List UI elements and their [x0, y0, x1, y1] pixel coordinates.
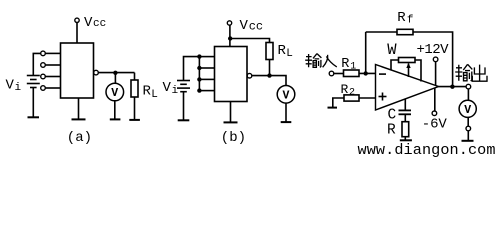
- ground of R2 (c): [328, 107, 338, 109]
- IC output pin terminal circle (a): [94, 70, 99, 75]
- label C (c): [388, 108, 397, 124]
- wire ground to R2 (c): [333, 98, 344, 108]
- wire pin2 (b): [199, 67, 214, 69]
- wire Vcc to IC top (a): [76, 23, 78, 43]
- ground of IC (a): [72, 118, 86, 120]
- junction dot output (c): [450, 85, 454, 89]
- wire battery to ground (a): [32, 88, 34, 118]
- svg-text:+12V: +12V: [417, 42, 450, 58]
- character 出 (out): [472, 65, 487, 82]
- ground of voltmeter (c): [462, 140, 474, 142]
- wire R2 to op-amp (c): [359, 97, 376, 99]
- wire pin1 (b): [199, 56, 214, 58]
- battery Vi (a): [27, 76, 40, 88]
- svg-text:V: V: [111, 87, 118, 100]
- wire output node (a): [98, 72, 134, 74]
- wire input to R1 (c): [334, 73, 344, 75]
- wire RL to output node (b): [269, 60, 271, 76]
- svg-text:V: V: [283, 90, 290, 103]
- wire to RL (a): [134, 73, 136, 80]
- output terminal circle (c): [466, 84, 471, 89]
- label output 输出: [455, 64, 487, 81]
- svg-text:www.diangon.com: www.diangon.com: [358, 141, 496, 159]
- wire voltmeter to ground (b): [285, 103, 287, 122]
- wire -6V to op-amp (c): [434, 88, 436, 111]
- wire pin4 (b): [199, 90, 214, 92]
- wire R1 to op-amp (c): [359, 72, 376, 74]
- voltmeter V (b): [277, 86, 295, 104]
- resistor RL (a): [131, 80, 138, 97]
- wire RL to ground (a): [134, 97, 136, 120]
- wire pin4 to IC (a): [45, 87, 60, 89]
- junction dot output (b): [267, 73, 271, 77]
- resistor R1 (c): [344, 70, 360, 77]
- label R2 (c): [341, 82, 356, 99]
- svg-text:cc: cc: [93, 18, 106, 30]
- label +12V (c): [417, 42, 450, 58]
- -6V terminal circle (c): [432, 111, 437, 116]
- resistor R vertical (c): [402, 122, 409, 137]
- character 输 (output): [455, 65, 462, 81]
- ground of IC (b): [224, 121, 238, 123]
- svg-text:R: R: [341, 57, 349, 72]
- battery Vi (b): [177, 81, 190, 92]
- ground of voltmeter (a): [110, 118, 121, 120]
- wire output to voltmeter (b): [252, 76, 286, 86]
- op-amp U1 triangle (c): [376, 65, 439, 111]
- wire C to R (c): [404, 114, 406, 121]
- Vcc terminal circle (b): [227, 21, 231, 25]
- svg-text:i: i: [15, 82, 22, 94]
- character 输 (input): [305, 54, 312, 67]
- wire Rf right to output node (c): [413, 32, 453, 87]
- svg-text:(a): (a): [67, 130, 92, 146]
- watermark www.diangon.com: [358, 141, 496, 159]
- pin 3 terminal circle (a): [41, 74, 46, 79]
- svg-text:V: V: [240, 18, 249, 34]
- pin 4 terminal circle (a): [41, 86, 46, 91]
- wire voltmeter to ground (a): [114, 101, 116, 119]
- pin 4 junction dot (b): [197, 88, 201, 92]
- label Vcc (b): [240, 18, 264, 34]
- +12V terminal circle (c): [433, 57, 438, 62]
- wire op-amp bottom edge to C (c): [404, 99, 406, 110]
- ground of battery (a): [28, 116, 40, 118]
- ground of battery (b): [178, 119, 190, 121]
- svg-text:(b): (b): [221, 130, 246, 146]
- plus sign inside op-amp (c): [379, 93, 387, 101]
- wire terminal to ground (c): [467, 131, 469, 141]
- svg-text:R: R: [341, 82, 349, 97]
- svg-text:L: L: [151, 89, 158, 101]
- Vcc terminal circle (a): [75, 18, 79, 22]
- wire W left lead (c): [391, 60, 399, 71]
- label (b): [221, 130, 246, 146]
- wire feedback left rail (c): [365, 32, 367, 73]
- wire Rf left (c): [366, 31, 397, 33]
- label -6V (c): [422, 117, 448, 133]
- voltmeter V (a): [106, 83, 124, 101]
- IC block U1 (b): [215, 47, 248, 102]
- wire Vcc junction to RL (b): [230, 39, 269, 43]
- pin 2 terminal circle (a): [41, 63, 46, 68]
- label Vi (a): [6, 78, 22, 94]
- wire battery to bus (b): [184, 57, 200, 81]
- junction dot (a): [113, 71, 117, 75]
- svg-text:i: i: [172, 85, 179, 97]
- svg-text:2: 2: [349, 88, 355, 99]
- potentiometer wiper arrow (c): [406, 63, 410, 77]
- wire R to ground (c): [404, 137, 406, 140]
- svg-text:C: C: [388, 108, 397, 124]
- label (a): [67, 130, 92, 146]
- pin 3 junction dot (b): [197, 77, 201, 81]
- svg-text:V: V: [6, 78, 15, 94]
- wire voltmeter to terminal (c): [467, 117, 469, 126]
- wire pin3 (b): [199, 78, 214, 80]
- pin 1 junction dot (b): [197, 54, 201, 58]
- ground of RL (a): [129, 119, 140, 121]
- wire pin3 to IC (a): [45, 76, 60, 78]
- wire battery to ground (b): [183, 92, 185, 120]
- svg-text:L: L: [286, 48, 293, 60]
- wire pin1 to IC (a): [45, 52, 60, 54]
- IC block U1 (a): [61, 43, 94, 98]
- pin 2 junction dot (b): [197, 66, 201, 70]
- resistor Rf (c): [397, 29, 413, 34]
- terminal circle below voltmeter (c): [466, 126, 471, 131]
- label input 输入: [305, 54, 337, 68]
- junction dot Vcc (b): [228, 36, 232, 40]
- input terminal circle (c): [329, 71, 334, 76]
- resistor RL (b): [266, 43, 273, 60]
- svg-text:R: R: [143, 84, 152, 100]
- label R (c): [387, 123, 396, 139]
- svg-text:V: V: [84, 15, 93, 31]
- svg-text:W: W: [387, 41, 397, 59]
- wire junction to voltmeter (a): [114, 73, 116, 83]
- capacitor C (c): [399, 110, 412, 114]
- wire IC to ground (b): [230, 102, 232, 123]
- svg-text:-6V: -6V: [422, 117, 448, 133]
- ground of voltmeter (b): [281, 121, 292, 123]
- wire +12V to op-amp (c): [435, 62, 437, 86]
- wire output to voltmeter (c): [467, 89, 469, 100]
- svg-text:R: R: [387, 123, 396, 139]
- label RL (a): [143, 84, 158, 102]
- label R1 (c): [341, 57, 356, 73]
- pin 1 terminal circle (a): [41, 51, 46, 56]
- wire pin2 to IC (a): [45, 64, 60, 66]
- label W (c): [387, 41, 397, 59]
- svg-text:V: V: [163, 80, 172, 96]
- wire IC to ground (a): [78, 98, 80, 119]
- svg-text:f: f: [407, 15, 414, 27]
- wire op-amp output (c): [439, 86, 467, 88]
- svg-text:R: R: [278, 43, 287, 59]
- svg-text:V: V: [464, 104, 471, 117]
- junction dot inverting node (c): [364, 71, 368, 75]
- svg-text:cc: cc: [249, 20, 263, 34]
- svg-text:1: 1: [350, 62, 356, 73]
- potentiometer W box (c): [399, 58, 416, 63]
- voltmeter V (c): [459, 100, 476, 117]
- svg-text:R: R: [397, 10, 406, 26]
- wire Vcc down (b): [229, 25, 231, 46]
- label Rf (c): [397, 10, 413, 27]
- character 入 (enter): [323, 55, 337, 68]
- resistor R2 (c): [344, 95, 359, 101]
- ground of R (c): [400, 139, 412, 141]
- input bus wire (b): [198, 57, 200, 91]
- wire W right lead (c): [415, 60, 421, 82]
- minus sign inside op-amp (c): [379, 73, 386, 75]
- wire battery to pin1 (a): [33, 53, 40, 75]
- label Vcc (a): [84, 15, 106, 31]
- label Vi (b): [163, 80, 179, 97]
- output pin terminal circle (b): [247, 73, 252, 78]
- label RL (b): [278, 43, 293, 60]
